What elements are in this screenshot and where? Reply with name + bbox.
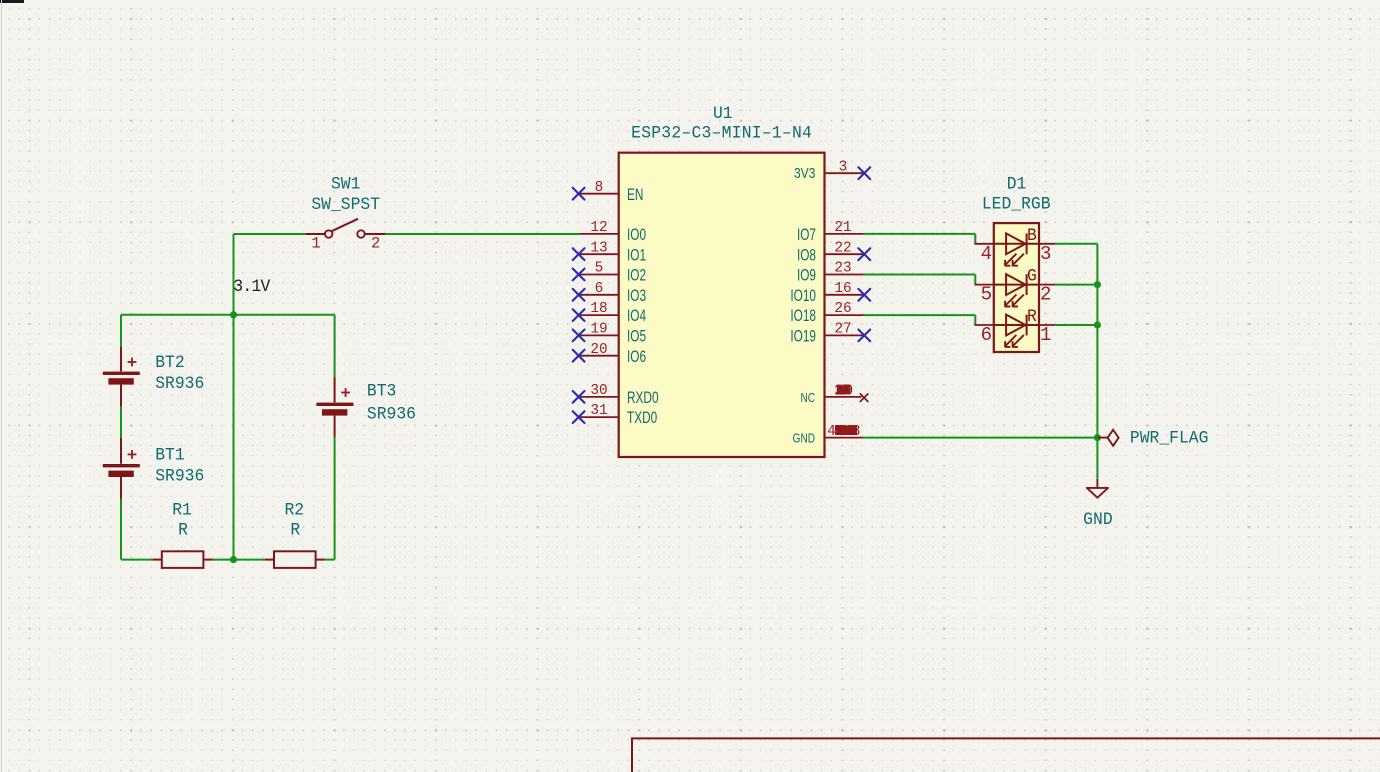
svg-text:D1: D1 [1007,175,1027,195]
svg-text:IO9: IO9 [797,267,816,286]
svg-text:IO3: IO3 [627,287,646,306]
wire junction to GND symbol [1096,438,1098,479]
wire middle vertical [233,315,235,560]
resistor R1 [153,551,213,568]
wire right branch vertical [334,315,336,560]
svg-text:21: 21 [834,220,851,236]
svg-text:6: 6 [595,281,604,297]
no-connect X on pin 18 [573,309,585,321]
U1 pin 31 TXD0 [580,403,657,428]
U1 pin 19 IO5 [580,322,646,347]
svg-text:G: G [1027,267,1037,287]
junction at PWR_FLAG [1094,434,1101,441]
svg-text:3: 3 [1040,243,1051,265]
svg-text:R: R [178,521,188,541]
svg-text:19: 19 [590,322,607,338]
svg-text:R: R [1027,308,1037,328]
wire switch net left segment [234,233,306,235]
svg-text:6: 6 [981,324,992,346]
U1 pin 12 IO0 [580,220,646,245]
svg-text:LED_RGB: LED_RGB [982,195,1051,215]
svg-text:26: 26 [834,301,851,317]
svg-text:5: 5 [981,284,992,306]
no-connect X on pin 20 [573,350,585,362]
power flag PWR_FLAG [1097,430,1118,446]
wire from switch down to 3.1V node [233,234,235,315]
U1 pin NC stacked [800,383,861,405]
svg-text:IO7: IO7 [797,226,816,245]
unconnected marker x on NC pin [860,394,868,402]
svg-text:9: 9 [845,383,854,399]
svg-text:IO18: IO18 [790,307,816,326]
U1 pin 13 IO1 [580,240,646,265]
svg-text:PWR_FLAG: PWR_FLAG [1130,429,1209,449]
LED element R of D1 [975,315,1056,347]
svg-text:3V3: 3V3 [794,165,815,181]
svg-text:5: 5 [595,261,604,277]
LED element B of D1 [975,233,1056,265]
svg-text:8: 8 [595,180,604,196]
svg-text:IO19: IO19 [790,328,816,347]
no-connect X on pin 22 [858,248,870,260]
no-connect X on pin 19 [573,330,585,342]
svg-text:TXD0: TXD0 [627,409,657,428]
U1 pin 27 IO19 [790,322,863,347]
svg-text:IO8: IO8 [797,246,816,265]
svg-text:20: 20 [590,342,607,358]
U1 pin 5 IO2 [580,261,646,286]
junction at D1 pin 2 [1094,281,1101,288]
wire top rail [121,314,335,316]
ic U1 body [619,153,825,457]
svg-text:27: 27 [834,322,851,338]
U1 pin 23 IO9 [797,261,864,286]
svg-text:IO10: IO10 [790,287,816,306]
junction bottom rail [230,556,237,563]
svg-text:IO2: IO2 [627,267,646,286]
svg-text:U1: U1 [713,105,733,125]
svg-text:R1: R1 [172,501,192,521]
svg-text:3.1V: 3.1V [233,278,271,298]
svg-text:SR936: SR936 [155,375,204,395]
led D1 body [994,223,1039,352]
no-connect X on pin 16 [858,289,870,301]
svg-text:SR936: SR936 [367,405,416,425]
svg-text:22: 22 [834,240,851,256]
svg-text:B: B [1027,226,1037,246]
svg-text:1: 1 [311,235,320,253]
resistor R2 [265,551,325,568]
U1 pin GND stacked [793,424,863,446]
svg-text:2: 2 [1040,284,1051,306]
svg-text:R: R [290,521,300,541]
svg-text:BT1: BT1 [155,446,184,466]
svg-text:30: 30 [590,383,607,399]
ground symbol GND [1087,479,1108,498]
wire bottom rail [121,559,335,561]
svg-text:R2: R2 [284,501,304,521]
no-connect X on pin 6 [573,289,585,301]
svg-text:IO1: IO1 [627,246,646,265]
no-connect X on pin 30 [573,391,585,403]
no-connect X on pin 5 [573,269,585,281]
no-connect X on pin 3 [858,167,870,179]
svg-text:1: 1 [1040,324,1051,346]
U1 pin 21 IO7 [797,220,864,245]
svg-text:13: 13 [590,240,607,256]
switch SW1 [306,219,386,238]
U1 pin 20 IO6 [580,342,646,367]
U1 pin 18 IO4 [580,301,646,326]
svg-text:18: 18 [590,301,607,317]
U1 pin 3 3V3 [794,159,864,181]
svg-text:12: 12 [590,220,607,236]
svg-text:3: 3 [839,159,848,175]
svg-text:NC: NC [800,392,815,405]
svg-text:BT3: BT3 [367,382,396,402]
no-connect X on pin 27 [858,330,870,342]
U1 pin 22 IO8 [797,240,864,265]
svg-text:GND: GND [1083,511,1112,531]
svg-text:SR936: SR936 [155,467,204,487]
wire IO9 to D1 pin 5 [864,275,976,285]
svg-text:4: 4 [981,243,992,265]
wire switch net right segment to IO0 [385,233,580,235]
wire D1 pin 3 to GND net [1055,243,1097,245]
wire IO18 to D1 pin 6 [864,315,976,325]
sheet border [632,738,1380,772]
battery BT3 [316,377,353,437]
svg-text:SW_SPST: SW_SPST [311,196,380,216]
svg-text:IO5: IO5 [627,328,646,347]
svg-text:IO6: IO6 [627,348,646,367]
svg-text:31: 31 [590,403,607,419]
battery BT1 [103,438,140,499]
wire GND net vertical [1096,244,1098,438]
no-connect X on pin 8 [573,188,585,200]
svg-text:IO4: IO4 [627,307,646,326]
svg-text:23: 23 [834,261,851,277]
U1 pin 16 IO10 [790,281,863,306]
svg-text:ESP32–C3–MINI–1–N4: ESP32–C3–MINI–1–N4 [631,124,812,144]
svg-text:8: 8 [852,424,861,440]
U1 pin 6 IO3 [580,281,646,306]
LED element G of D1 [975,274,1056,306]
svg-text:IO0: IO0 [627,226,646,245]
wire D1 pin 1 to GND net [1055,324,1097,326]
junction top rail [230,311,237,318]
wire U1 GND to junction [863,437,1097,439]
battery BT2 [103,347,140,406]
wire D1 pin 2 to GND net [1055,284,1097,286]
svg-text:GND: GND [793,433,815,446]
U1 pin 26 IO18 [790,301,863,326]
junction at D1 pin 1 [1094,321,1101,328]
wire left branch vertical [120,315,122,560]
U1 pin 30 RXD0 [580,383,659,408]
U1 pin 8 EN [580,180,643,205]
svg-text:RXD0: RXD0 [627,389,659,408]
no-connect X on pin 13 [573,248,585,260]
svg-text:2: 2 [371,235,380,253]
svg-text:16: 16 [834,281,851,297]
svg-text:EN: EN [627,186,643,205]
no-connect X on pin 31 [573,411,585,423]
svg-text:BT2: BT2 [155,354,184,374]
svg-text:SW1: SW1 [331,175,360,195]
wire IO7 to D1 pin 4 [864,234,976,244]
